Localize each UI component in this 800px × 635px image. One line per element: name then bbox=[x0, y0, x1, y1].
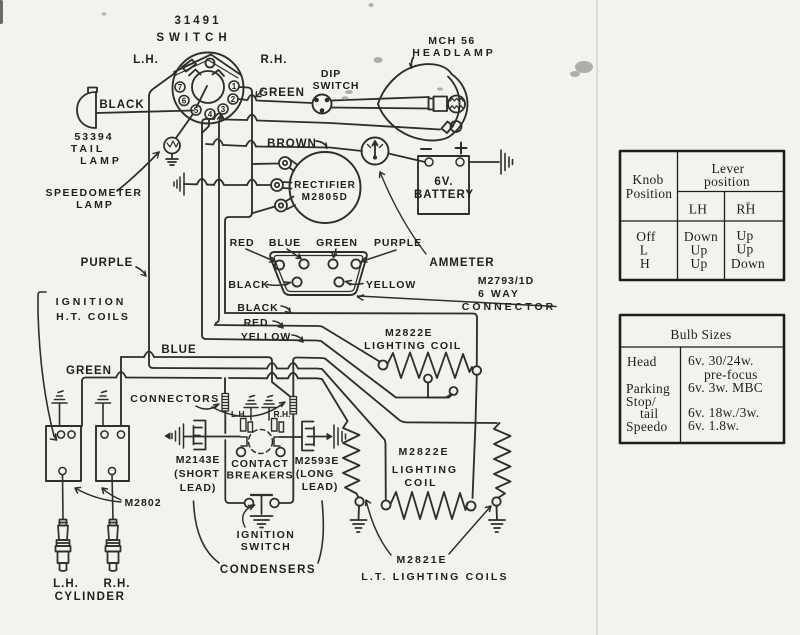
knob position table frame bbox=[620, 151, 784, 280]
arrow purple to hole bbox=[362, 250, 397, 262]
svg-text:6V.: 6V. bbox=[434, 176, 453, 188]
svg-text:L.H.: L.H. bbox=[53, 578, 79, 590]
scan border artifact top-left bbox=[0, 2, 3, 22]
svg-text:CONNECTORS: CONNECTORS bbox=[130, 393, 219, 405]
ammeter wire to battery bbox=[389, 154, 426, 163]
headlamp label arrow bbox=[411, 57, 413, 68]
svg-text:(SHORT: (SHORT bbox=[174, 468, 220, 480]
wire bottom corner to lug3 bbox=[225, 207, 275, 314]
svg-text:GREEN: GREEN bbox=[316, 237, 358, 249]
svg-text:YELLOW: YELLOW bbox=[241, 331, 291, 343]
svg-text:L.H.: L.H. bbox=[231, 409, 247, 419]
svg-text:RED: RED bbox=[230, 237, 255, 249]
svg-text:AMMETER: AMMETER bbox=[429, 257, 494, 269]
table2 header underline bbox=[620, 346, 784, 348]
pointer 6 way connector label bbox=[358, 295, 557, 307]
condenser M2143E body bbox=[194, 421, 206, 450]
hop pilot over x219 bbox=[214, 114, 224, 120]
svg-text:6v. 3w. MBC: 6v. 3w. MBC bbox=[688, 380, 763, 395]
svg-text:R.H.: R.H. bbox=[261, 54, 288, 66]
wire switch T5 to speedometer lamp bbox=[176, 114, 193, 138]
headlamp main bulb with filament bbox=[448, 96, 465, 113]
hop green over x272 bbox=[267, 373, 277, 379]
arrow M2821E to left coil bbox=[366, 500, 392, 555]
arrow ignition label bbox=[243, 505, 255, 527]
green label arrow bbox=[256, 90, 263, 97]
arrow yellow label bbox=[292, 335, 303, 342]
lighting coil 1 right terminal bbox=[473, 366, 482, 375]
table2 vertical divider bbox=[680, 347, 682, 443]
svg-text:5: 5 bbox=[194, 106, 199, 115]
svg-text:H: H bbox=[640, 256, 650, 271]
ground hatch for rectifier mid wire bbox=[174, 173, 184, 195]
rectifier body bbox=[290, 152, 361, 223]
purple label arrow bbox=[136, 267, 146, 276]
hop purple over x293 bbox=[288, 363, 298, 369]
wire connector1 down bbox=[224, 411, 226, 433]
wire vertical x202 bbox=[202, 119, 206, 339]
svg-text:Speedo: Speedo bbox=[626, 419, 668, 434]
spark plug wire 1 bbox=[62, 475, 65, 519]
wire red horizontal bbox=[215, 325, 380, 362]
breaker terminal left bbox=[237, 448, 246, 457]
battery plus mark bbox=[456, 143, 467, 154]
svg-text:CONTACT: CONTACT bbox=[231, 458, 289, 470]
svg-text:IGNITION: IGNITION bbox=[56, 296, 127, 308]
battery body bbox=[418, 156, 469, 214]
wire x293 vertical through connector2 bbox=[279, 361, 293, 503]
ignition switch terminals bbox=[245, 499, 254, 508]
condenser M2593E earth bbox=[314, 436, 327, 438]
speedometer lamp ground bbox=[166, 154, 178, 166]
6-way connector outer shell bbox=[270, 252, 367, 295]
wire vertical x252 to top lug bbox=[252, 163, 279, 166]
arrow black label bbox=[281, 306, 291, 313]
svg-text:BREAKERS: BREAKERS bbox=[227, 470, 294, 482]
dip switch body bbox=[313, 95, 332, 114]
bulb sizes table frame bbox=[620, 315, 784, 443]
wire T4 stub bbox=[203, 119, 209, 132]
wire vertical from T1 down bbox=[251, 92, 253, 212]
pilot bulb holder bbox=[442, 122, 454, 134]
svg-text:M2822E: M2822E bbox=[385, 327, 433, 339]
connector hole black bbox=[292, 277, 301, 286]
wire green branch to connector 1 bbox=[224, 378, 226, 393]
svg-text:LEAD): LEAD) bbox=[180, 482, 217, 494]
svg-text:2: 2 bbox=[231, 95, 236, 104]
svg-text:LAMP: LAMP bbox=[76, 199, 114, 211]
wire purple: pentagon diagonal from switch bbox=[149, 73, 175, 96]
svg-text:Knob: Knob bbox=[632, 172, 663, 187]
coil 1 cutout tap terminal bbox=[424, 375, 432, 383]
svg-text:BLUE: BLUE bbox=[161, 344, 196, 356]
rectifier lug 2 bbox=[271, 179, 283, 191]
arrow black to hole bbox=[267, 282, 291, 286]
table1 main vertical divider bbox=[677, 151, 679, 280]
wire cable dip switch to headlamp bulb (two lines) bbox=[332, 97, 429, 101]
switch top pivot circle bbox=[206, 59, 215, 68]
hop green over x121 bbox=[116, 372, 126, 378]
arrow connectors label right bbox=[212, 402, 285, 416]
svg-text:position: position bbox=[704, 174, 750, 189]
wire blue left segment bbox=[121, 357, 272, 361]
svg-text:GREEN: GREEN bbox=[259, 87, 305, 99]
brown label arrow bbox=[316, 141, 327, 148]
svg-text:6: 6 bbox=[182, 97, 187, 106]
scan smudges bbox=[575, 61, 593, 73]
LT coil right winding bbox=[494, 423, 511, 498]
lighting coil 1 left terminal bbox=[379, 361, 388, 370]
tail lamp tab bbox=[88, 88, 97, 93]
wire black horizontal bbox=[225, 313, 477, 366]
condenser M2143E earth bbox=[172, 424, 184, 448]
svg-text:SWITCH: SWITCH bbox=[241, 541, 291, 553]
svg-text:HEADLAMP: HEADLAMP bbox=[412, 47, 496, 59]
lighting coil 1 winding bbox=[388, 353, 473, 379]
wire black vertical to coils bbox=[473, 375, 477, 498]
headlamp rim inner arc bbox=[448, 77, 460, 132]
svg-text:YELLOW: YELLOW bbox=[366, 279, 416, 291]
svg-text:BLACK: BLACK bbox=[237, 302, 278, 314]
HT coils label pointer bbox=[38, 292, 57, 440]
coil 1 cutout second terminal bbox=[450, 387, 458, 395]
wire blue right segment to lighting coil feed bbox=[293, 358, 497, 424]
wire points to condenser M2593E bbox=[280, 436, 302, 438]
wire T3 stub with arrowhead bbox=[215, 115, 221, 325]
table1 header row underline bbox=[620, 220, 784, 222]
6-way connector inner line bbox=[274, 256, 362, 292]
svg-text:CYLINDER: CYLINDER bbox=[55, 591, 126, 603]
headlamp bulb collar bbox=[429, 99, 434, 110]
svg-text:CONNECTOR: CONNECTOR bbox=[462, 301, 556, 313]
wire green vertical down to HT coil bbox=[81, 381, 83, 426]
wire tail lamp to switch (black) bbox=[96, 111, 193, 114]
svg-text:M2821E: M2821E bbox=[396, 554, 447, 566]
ammeter pointer line from label bbox=[380, 172, 426, 254]
hop green over x293 bbox=[288, 373, 298, 379]
wire pilot lamp feed bbox=[206, 119, 440, 130]
svg-text:6v. 1.8w.: 6v. 1.8w. bbox=[688, 418, 739, 433]
svg-text:RED: RED bbox=[244, 317, 269, 329]
svg-text:M2822E: M2822E bbox=[398, 446, 449, 458]
svg-text:LH: LH bbox=[689, 202, 708, 217]
rectifier lug 1 bbox=[279, 157, 291, 169]
svg-text:M2805D: M2805D bbox=[302, 192, 349, 203]
svg-text:7: 7 bbox=[178, 83, 183, 92]
connector hole green bbox=[328, 259, 337, 268]
arrow connectors label left bbox=[196, 404, 219, 409]
svg-text:3: 3 bbox=[221, 105, 226, 114]
hop over x252 bbox=[247, 180, 257, 186]
headlamp shell body bbox=[378, 64, 452, 104]
svg-text:Down: Down bbox=[731, 256, 765, 271]
breaker points RH bbox=[272, 419, 278, 432]
LT coil right ground bbox=[489, 506, 505, 533]
svg-text:H.T. COILS: H.T. COILS bbox=[56, 311, 130, 323]
svg-text:Head: Head bbox=[627, 354, 657, 369]
connector hole purple bbox=[351, 259, 360, 268]
svg-text:LIGHTING: LIGHTING bbox=[392, 464, 458, 476]
svg-text:SWITCH: SWITCH bbox=[313, 80, 360, 92]
svg-text:BATTERY: BATTERY bbox=[414, 189, 474, 201]
pilot bulb bbox=[451, 121, 462, 132]
svg-text:BLUE: BLUE bbox=[269, 237, 301, 249]
tail lamp body bbox=[77, 92, 96, 128]
spark plug 1 bbox=[59, 520, 67, 526]
svg-text:(LONG: (LONG bbox=[296, 468, 334, 480]
hop purple over x272 bbox=[267, 363, 277, 369]
svg-text:PURPLE: PURPLE bbox=[374, 237, 422, 249]
switch pointer line bbox=[197, 86, 208, 107]
spark plug wire 2 bbox=[112, 475, 113, 519]
svg-text:1: 1 bbox=[232, 82, 237, 91]
wire ground to rectifier middle lug bbox=[184, 184, 271, 185]
coil tap stub bbox=[427, 383, 429, 398]
svg-text:RH: RH bbox=[736, 202, 755, 217]
breaker cam dashed circle bbox=[249, 430, 273, 454]
connector hole blue bbox=[299, 259, 308, 268]
arrow blue to hole bbox=[287, 249, 301, 259]
ammeter body bbox=[362, 138, 389, 165]
breaker terminal right bbox=[276, 448, 285, 457]
svg-text:COIL: COIL bbox=[404, 477, 437, 489]
LT coil left ground bbox=[351, 506, 367, 533]
battery earth symbol bbox=[501, 150, 513, 174]
svg-text:BROWN: BROWN bbox=[267, 138, 317, 150]
svg-text:CONDENSERS: CONDENSERS bbox=[220, 564, 316, 576]
condensers pointer right bbox=[318, 501, 323, 563]
svg-text:R.H.: R.H. bbox=[104, 578, 131, 590]
breaker brush right bbox=[262, 396, 276, 421]
switch terminal 7 bbox=[175, 81, 239, 119]
svg-text:53394: 53394 bbox=[74, 131, 113, 143]
wire blue vertical into connector bbox=[272, 361, 290, 396]
ammeter needle bbox=[373, 141, 378, 158]
svg-text:DIP: DIP bbox=[321, 68, 341, 80]
svg-text:PURPLE: PURPLE bbox=[81, 257, 134, 269]
wire brown to ammeter bbox=[206, 144, 362, 151]
arrow yellow to hole bbox=[346, 281, 364, 286]
arrow green to hole bbox=[332, 249, 337, 258]
ignition switch lever bbox=[251, 494, 272, 496]
HT coil box 1 bbox=[46, 426, 81, 481]
condensers pointer left bbox=[194, 501, 220, 563]
hop over x219 bbox=[214, 179, 224, 185]
svg-text:LIGHTING COIL: LIGHTING COIL bbox=[364, 340, 462, 352]
dip switch contacts bbox=[314, 98, 319, 103]
lighting switch 31491 outer body bbox=[173, 53, 244, 124]
HT coil box 2 terminals bbox=[101, 431, 108, 438]
svg-text:TAIL: TAIL bbox=[71, 143, 106, 155]
svg-text:BLACK: BLACK bbox=[228, 279, 269, 291]
svg-text:M2143E: M2143E bbox=[176, 454, 221, 466]
LT coil right terminal bbox=[492, 497, 500, 505]
svg-text:RECTIFIER: RECTIFIER bbox=[294, 180, 356, 191]
connector component 1 bbox=[222, 394, 229, 412]
svg-text:L.T. LIGHTING COILS: L.T. LIGHTING COILS bbox=[361, 571, 508, 583]
svg-text:4: 4 bbox=[208, 110, 213, 119]
table1 lever header underline bbox=[678, 191, 785, 193]
LT coil left winding bbox=[343, 421, 360, 498]
svg-text:L.H.: L.H. bbox=[133, 54, 159, 66]
svg-text:6v. 30/24w.: 6v. 30/24w. bbox=[688, 353, 754, 368]
arrow red to hole bbox=[246, 249, 275, 262]
arrow M2802 to box2 bbox=[102, 488, 121, 500]
HT coil box 1 terminals bbox=[57, 431, 64, 438]
rectifier lug 3 bbox=[275, 200, 287, 212]
connector component 2 bbox=[290, 397, 297, 415]
svg-text:Up: Up bbox=[736, 242, 753, 257]
condenser M2593E body bbox=[302, 422, 314, 451]
hop brown over x219 bbox=[213, 139, 223, 145]
arrow red label bbox=[273, 321, 283, 328]
ignition switch ground bbox=[251, 516, 273, 528]
wire green horizontal bbox=[82, 378, 348, 422]
hop brown over x252 bbox=[246, 141, 256, 147]
contact breaker feed wire bbox=[184, 436, 241, 438]
wire switch T1 stub to vertical bbox=[239, 87, 252, 92]
arrow M2802 to box1 bbox=[75, 488, 121, 503]
switch inner rotor bbox=[192, 71, 224, 103]
wire blue vertical down to HT coil bbox=[120, 357, 122, 426]
wire yellow horizontal and diagonal bbox=[206, 339, 452, 398]
battery earth wire bbox=[469, 161, 499, 163]
breaker brush left bbox=[244, 396, 258, 421]
speedometer label arrow bbox=[117, 152, 159, 191]
svg-text:Position: Position bbox=[626, 186, 673, 201]
scan divider line bbox=[596, 0, 598, 635]
battery terminals bbox=[425, 158, 433, 166]
lighting coil 2 right terminal bbox=[467, 502, 476, 511]
svg-text:M2593E: M2593E bbox=[295, 455, 340, 467]
switch scallop humps bbox=[189, 70, 201, 76]
table1 LH RH divider bbox=[724, 192, 726, 281]
svg-text:Up: Up bbox=[690, 256, 707, 271]
coil tap link wire bbox=[428, 394, 452, 398]
breaker points LH bbox=[241, 419, 247, 432]
switch roof lines bbox=[174, 55, 241, 76]
svg-text:SPEEDOMETER: SPEEDOMETER bbox=[45, 187, 142, 199]
svg-text:31491: 31491 bbox=[175, 15, 222, 27]
svg-text:Bulb Sizes: Bulb Sizes bbox=[670, 327, 731, 342]
svg-text:SWITCH: SWITCH bbox=[156, 32, 231, 44]
svg-text:BLACK: BLACK bbox=[99, 99, 144, 111]
speedometer lamp bulb bbox=[164, 138, 180, 154]
svg-text:R.H.: R.H. bbox=[274, 409, 291, 419]
svg-text:M2802: M2802 bbox=[124, 497, 161, 509]
hop pilot over x252 bbox=[247, 115, 257, 121]
brush symbol box2 bbox=[96, 391, 111, 426]
spark plug 2 bbox=[109, 520, 117, 526]
wire green from switch T2 to dip switch bbox=[238, 95, 312, 103]
battery minus mark bbox=[421, 148, 431, 150]
svg-text:M2793/1D: M2793/1D bbox=[478, 275, 534, 287]
lighting coil 2 left terminal bbox=[382, 501, 391, 510]
hop over x202 bbox=[197, 179, 207, 185]
hop blue over purple vertical bbox=[144, 352, 154, 358]
svg-text:GREEN: GREEN bbox=[66, 365, 112, 377]
LT coil left terminal bbox=[355, 497, 363, 505]
svg-text:LEAD): LEAD) bbox=[302, 481, 339, 493]
arrow M2821E to right coil bbox=[449, 506, 491, 554]
lighting coil 2 winding bbox=[391, 492, 468, 519]
svg-text:MCH 56: MCH 56 bbox=[428, 35, 476, 47]
headlamp rim outer arc bbox=[452, 74, 468, 135]
ignition switch left wire bbox=[225, 440, 244, 503]
HT coil box 2 bbox=[96, 426, 129, 481]
wire purple vertical bbox=[149, 96, 153, 368]
connector hole red bbox=[275, 260, 284, 269]
svg-text:IGNITION: IGNITION bbox=[237, 529, 296, 541]
connector hole yellow bbox=[334, 277, 343, 286]
brush symbol box1 bbox=[52, 391, 67, 426]
svg-text:LAMP: LAMP bbox=[80, 155, 122, 167]
switch tilted key rectangle bbox=[182, 60, 196, 72]
wire purple horizontal bbox=[153, 368, 386, 500]
svg-text:6 WAY: 6 WAY bbox=[478, 288, 520, 300]
